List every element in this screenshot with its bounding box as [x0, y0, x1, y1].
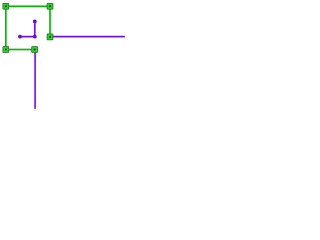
highlight mark (pale yellow) near node — [38, 31, 40, 36]
background — [0, 0, 127, 115]
handle H2 (top-right corner) — [47, 3, 53, 9]
handle H1 (top-left corner) — [3, 3, 9, 9]
node dot (W3 top end) — [33, 20, 37, 24]
handle H5 (bottom wire end, meets purple wire) — [32, 47, 38, 53]
wire W2 (purple, vertical going down) — [34, 52, 37, 109]
handle H3 (right wire end, meets purple wire) — [47, 34, 53, 40]
node dot (W3 corner junction) — [33, 35, 37, 39]
node dot (W3 left end) — [18, 35, 22, 39]
wire W1 (purple, horizontal to right edge) — [53, 35, 125, 38]
wire W3 (purple L-shaped wire) — [20, 21, 35, 36]
handle H4 (bottom-left corner) — [3, 47, 9, 53]
wire (green selected trace: bottom edge, left edge, top edge, right edge) — [6, 6, 50, 49]
